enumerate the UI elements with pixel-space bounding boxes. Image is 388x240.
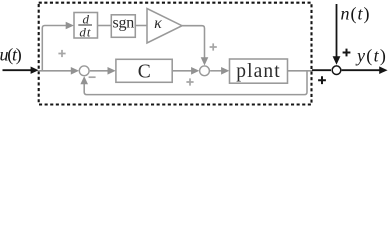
svg-text:y(t): y(t) xyxy=(355,45,387,66)
svg-text:u(t): u(t) xyxy=(0,44,22,65)
svg-text:sgn: sgn xyxy=(112,15,134,32)
svg-text:κ: κ xyxy=(154,15,162,32)
svg-text:plant: plant xyxy=(236,61,281,82)
svg-text:C: C xyxy=(138,61,151,82)
svg-text:dt: dt xyxy=(79,24,91,39)
svg-text:n(t): n(t) xyxy=(341,3,371,24)
